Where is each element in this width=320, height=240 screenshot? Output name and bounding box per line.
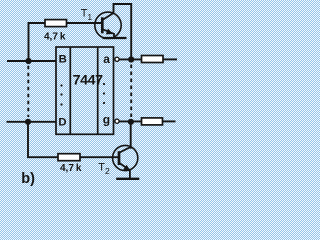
- svg-text:4,7 k: 4,7 k: [44, 32, 66, 43]
- svg-text:a: a: [103, 52, 110, 66]
- svg-text:D: D: [58, 117, 66, 129]
- svg-text:g: g: [103, 113, 110, 127]
- svg-text:b): b): [21, 171, 35, 187]
- svg-text:T1: T1: [81, 8, 93, 23]
- svg-text:T2: T2: [98, 161, 110, 176]
- svg-text:4,7 k: 4,7 k: [60, 163, 82, 174]
- svg-text:7447: 7447: [73, 73, 103, 89]
- svg-text:B: B: [59, 53, 67, 65]
